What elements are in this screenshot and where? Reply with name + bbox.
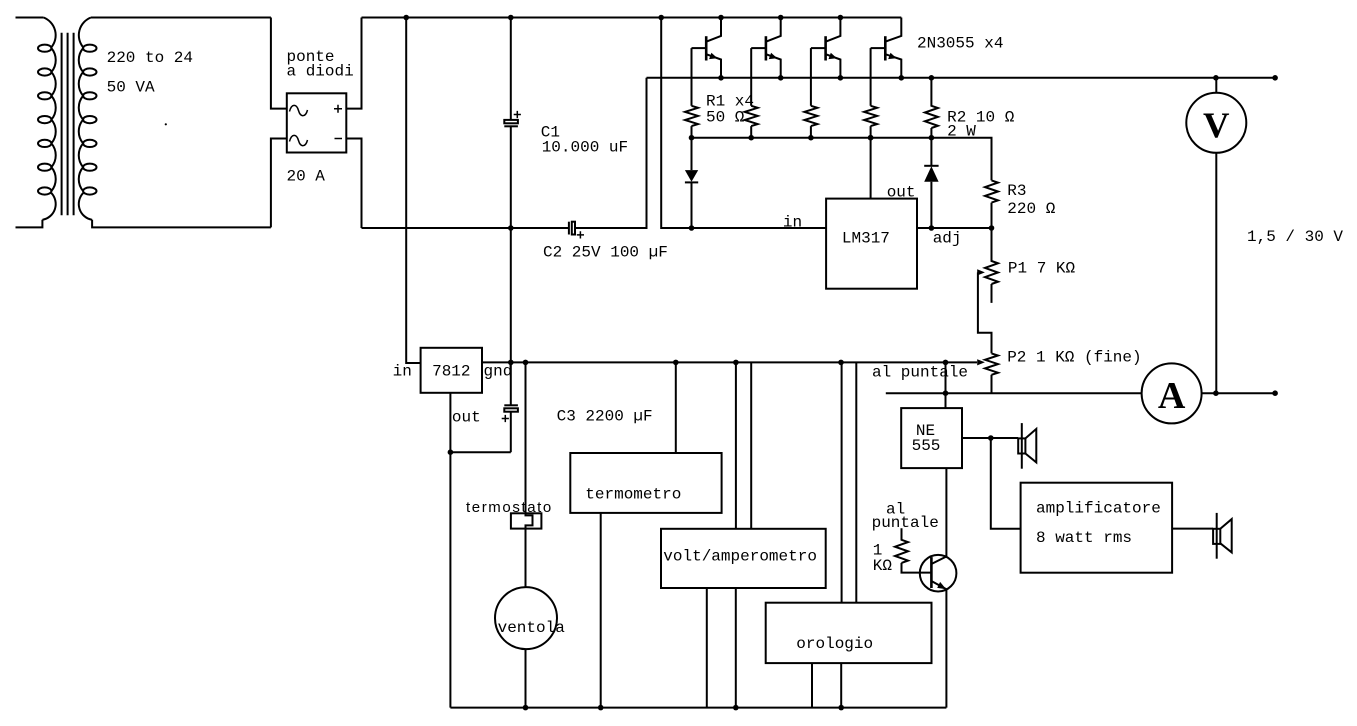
- svg-text:R3: R3: [1007, 182, 1026, 200]
- svg-text:220 to 24: 220 to 24: [107, 49, 193, 67]
- svg-text:in: in: [783, 214, 802, 232]
- wire 7812 out pin: [449, 393, 451, 452]
- wire gnd rail: [482, 361, 977, 363]
- timer U3 NE555 box: [901, 408, 962, 468]
- junction base rail x751: [748, 135, 754, 141]
- svg-text:out: out: [452, 409, 481, 427]
- svg-text:555: 555: [912, 437, 941, 455]
- svg-text:termostato: termostato: [466, 499, 553, 516]
- svg-text:al puntale: al puntale: [872, 364, 968, 382]
- svg-text:C3 2200 µF: C3 2200 µF: [557, 408, 653, 426]
- wire top rail to LM317 in line: [661, 18, 826, 229]
- orologio box: [766, 603, 932, 663]
- svg-text:2 W: 2 W: [947, 123, 976, 141]
- wire LM317 out pin: [870, 138, 872, 199]
- junction base rail x691: [689, 135, 695, 141]
- junction in line diode D1: [689, 225, 695, 231]
- resistor R3: [985, 180, 998, 228]
- junction bottom rail voltamp: [733, 705, 739, 711]
- terminal output negative: [1272, 390, 1278, 396]
- wire C2 right to output rail: [575, 78, 647, 228]
- svg-text:amplificatore: amplificatore: [1036, 500, 1161, 518]
- junction output rail voltmeter: [1213, 75, 1219, 81]
- ammeter A: [1142, 363, 1202, 423]
- svg-text:volt/amperometro: volt/amperometro: [663, 548, 817, 566]
- capacitor C2: [569, 222, 584, 239]
- junction output rail emitter Q1: [718, 75, 724, 81]
- transformer T1 primary bottom wire: [16, 220, 43, 228]
- resistor R1.1: [685, 106, 698, 138]
- regulator U1 LM317 box: [826, 199, 917, 289]
- junction base rail x870: [868, 135, 874, 141]
- junction gnd rail voltamp: [733, 360, 739, 366]
- transformer T1 primary top wire: [16, 17, 44, 19]
- svg-text:8 watt rms: 8 watt rms: [1036, 529, 1132, 547]
- wire ammeter line right: [1202, 392, 1276, 394]
- bridge minus mark: [335, 138, 343, 140]
- svg-text:KΩ: KΩ: [873, 557, 893, 575]
- junction out node: [448, 449, 454, 455]
- resistor R1.4: [864, 106, 877, 138]
- junction adj R3: [989, 225, 995, 231]
- svg-text:a diodi: a diodi: [287, 63, 354, 81]
- wire NE555 out to speaker: [962, 437, 1018, 439]
- capacitor C1: [504, 18, 521, 363]
- junction - rail C1: [508, 225, 514, 231]
- svg-text:out: out: [887, 184, 916, 202]
- svg-text:50 Ω: 50 Ω: [706, 109, 745, 127]
- wire bridge + output: [346, 18, 361, 109]
- resistor R1.3: [804, 106, 817, 138]
- svg-text:adj: adj: [933, 230, 962, 248]
- junction base rail R2: [929, 135, 935, 141]
- diode D1: [685, 138, 698, 228]
- svg-text:LM317: LM317: [842, 230, 890, 248]
- speaker LS1: [1018, 423, 1036, 469]
- junction NE555 out branch: [988, 435, 994, 441]
- wire orologio top pin 1: [841, 362, 843, 602]
- svg-text:50 VA: 50 VA: [107, 79, 155, 97]
- potentiometer P2: [985, 353, 998, 393]
- junction output rail emitter Q4: [899, 75, 905, 81]
- resistor 1 Kohm: [895, 528, 931, 572]
- wire voltamp bottom pin 2: [735, 588, 737, 708]
- svg-text:C2 25V 100 µF: C2 25V 100 µF: [543, 244, 668, 262]
- junction gnd rail termostato: [523, 360, 529, 366]
- junction bottom rail termometro: [598, 705, 604, 711]
- wire NE555 bottom to Q5 collector: [945, 468, 947, 556]
- P2 wiper arrow: [977, 359, 985, 365]
- transformer T1 secondary top wire: [91, 17, 271, 19]
- svg-text:20 A: 20 A: [287, 168, 326, 186]
- wire out node to bottom rail: [449, 452, 451, 707]
- svg-text:ventola: ventola: [498, 619, 566, 637]
- wire bottom +12 rail: [450, 707, 946, 709]
- junction A line voltmeter drop: [1213, 390, 1219, 396]
- junction gnd rail C3: [508, 360, 514, 366]
- junction gnd rail orologio: [838, 360, 844, 366]
- junction output rail R2: [929, 75, 935, 81]
- transformer T1 primary winding: [38, 18, 56, 220]
- volt/amperometro box: [661, 529, 826, 588]
- wire ventola to bottom rail: [525, 649, 527, 708]
- transistor Q3 2N3055: [811, 18, 841, 106]
- junction gnd rail NE555: [943, 360, 949, 366]
- wire top + rail: [362, 17, 902, 19]
- transformer T1 secondary bottom wire: [92, 220, 271, 228]
- transformer T1 secondary winding: [79, 18, 97, 220]
- junction gnd rail termometro: [673, 360, 679, 366]
- junction bottom rail orologio: [838, 705, 844, 711]
- junction output rail emitter Q2: [778, 75, 784, 81]
- stray period mark: [165, 123, 167, 125]
- resistor R2: [925, 78, 938, 138]
- svg-text:P1 7 KΩ: P1 7 KΩ: [1008, 260, 1076, 278]
- wire termometro bottom pin: [600, 513, 602, 708]
- potentiometer P1: [985, 228, 998, 303]
- bridge AC symbol lower: [290, 135, 308, 145]
- junction top rail collector Q2: [778, 15, 784, 21]
- junction base rail out pin: [868, 135, 874, 141]
- wire LM317 adj line: [917, 227, 992, 229]
- wire Q5 emitter to bottom rail: [945, 589, 947, 707]
- transistor Q2 2N3055: [751, 18, 781, 106]
- svg-text:A: A: [1158, 375, 1186, 417]
- wire out node rail: [450, 451, 510, 453]
- wire + feed to 7812 in: [406, 18, 420, 364]
- wire base rail to R3: [692, 138, 992, 181]
- junction top rail collector Q3: [838, 15, 844, 21]
- terminal output positive: [1272, 75, 1278, 81]
- fan ventola: [495, 587, 557, 649]
- voltmeter V: [1186, 78, 1246, 393]
- bridge plus mark: [334, 105, 342, 113]
- wire voltamp bottom pin 1: [706, 588, 708, 708]
- svg-text:10.000 uF: 10.000 uF: [542, 139, 628, 157]
- wire bridge - output: [346, 139, 361, 229]
- svg-text:V: V: [1203, 105, 1230, 145]
- svg-text:7812: 7812: [432, 363, 470, 381]
- transistor Q1 2N3055: [692, 18, 722, 106]
- svg-text:P2 1 KΩ (fine): P2 1 KΩ (fine): [1007, 349, 1141, 367]
- wire orologio bottom pin 2: [840, 663, 842, 708]
- junction top rail x406: [403, 15, 409, 21]
- wire output rail: [647, 77, 1276, 79]
- amplificatore box: [1021, 483, 1173, 573]
- wire bridge AC input bottom: [271, 139, 287, 228]
- wire amplifier to speaker 2: [1172, 528, 1213, 530]
- regulator U2 7812 box: [421, 348, 482, 393]
- resistor R1.2: [745, 106, 758, 138]
- svg-text:1,5 / 30 V: 1,5 / 30 V: [1247, 228, 1343, 246]
- junction A line NE555: [943, 390, 949, 396]
- termometro box: [570, 453, 721, 513]
- wire P1 wiper to P2: [978, 272, 992, 353]
- speaker LS2: [1213, 513, 1232, 559]
- wire branch to amplifier: [991, 438, 1021, 529]
- capacitor C3: [502, 362, 518, 452]
- svg-text:2N3055 x4: 2N3055 x4: [917, 35, 1003, 53]
- junction output rail emitter Q3: [838, 75, 844, 81]
- wire - rail: [362, 227, 569, 229]
- junction top rail x661: [658, 15, 664, 21]
- junction adj D2: [929, 225, 935, 231]
- junction top rail collector Q1: [718, 15, 724, 21]
- svg-text:in: in: [393, 363, 412, 381]
- wire orologio bottom pin 1: [811, 663, 813, 708]
- svg-text:orologio: orologio: [796, 635, 873, 653]
- junction top rail x511: [508, 15, 514, 21]
- P1 wiper arrow: [977, 269, 985, 275]
- svg-text:termometro: termometro: [585, 486, 681, 504]
- junction base rail x810: [808, 135, 814, 141]
- svg-text:gnd: gnd: [484, 363, 513, 381]
- transistor Q4 2N3055: [871, 18, 902, 106]
- wire bridge AC input top: [271, 18, 287, 109]
- wire termometro top pin: [675, 362, 677, 453]
- transistor Q5: [920, 555, 957, 592]
- bridge rectifier box: [287, 93, 347, 152]
- svg-text:puntale: puntale: [872, 514, 939, 532]
- diode D2: [924, 138, 938, 228]
- wire voltamp top pin 1: [735, 362, 737, 528]
- wire NE555 top pin: [945, 362, 947, 408]
- thermostat switch: [511, 362, 542, 587]
- wire voltamp top pin 2: [750, 362, 752, 528]
- svg-text:220 Ω: 220 Ω: [1007, 200, 1055, 218]
- bridge AC symbol upper: [290, 105, 308, 115]
- wire orologio top pin 2: [855, 362, 857, 602]
- junction bottom rail ventola: [523, 705, 529, 711]
- wire ammeter line: [886, 392, 1142, 394]
- transformer T1 core: [62, 33, 74, 216]
